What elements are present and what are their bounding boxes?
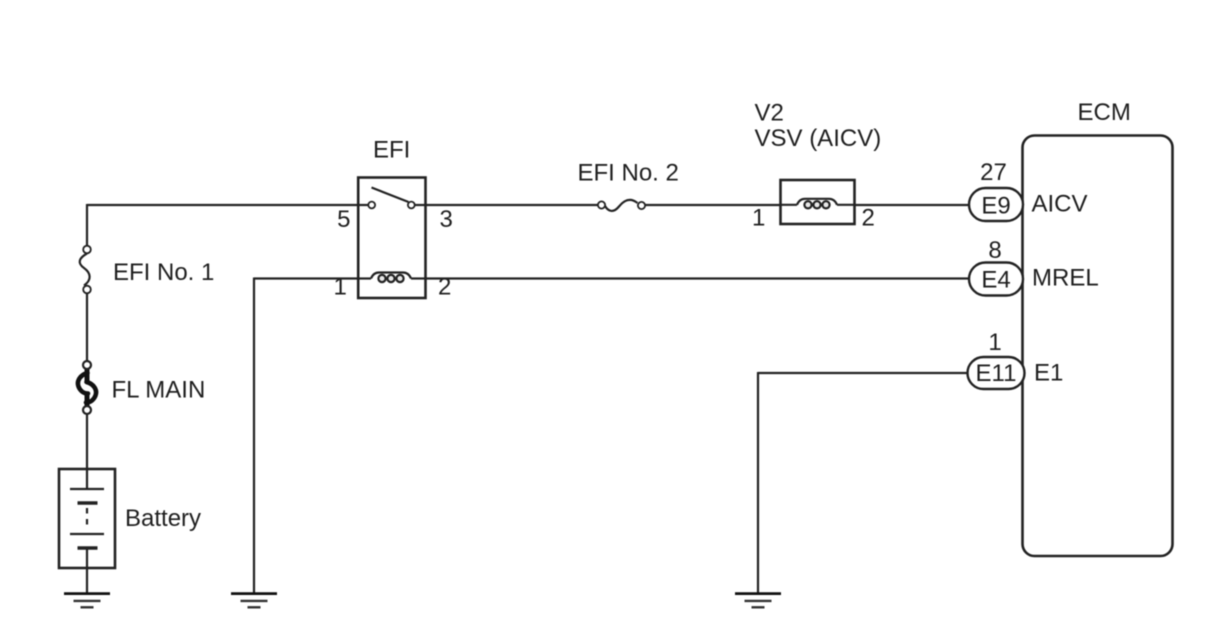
svg-text:ECM: ECM (1078, 99, 1131, 126)
label ECM (1078, 99, 1131, 126)
label FL MAIN (112, 377, 206, 404)
wire battery negative to ground (86, 548, 88, 593)
relay coil (358, 273, 426, 283)
wire fuse EFI No. 2 to VSV pin 1 (645, 204, 780, 206)
ground under battery (64, 594, 110, 608)
svg-text:3: 3 (440, 206, 453, 233)
wire relay pin 2 to ECM connector E4 (426, 277, 969, 279)
relay EFI (358, 178, 425, 299)
ground under relay branch (231, 594, 277, 608)
svg-text:AICV: AICV (1032, 191, 1088, 218)
svg-text:27: 27 (980, 159, 1007, 186)
svg-text:1: 1 (988, 329, 1001, 356)
relay switch contact pin 5 (368, 202, 375, 209)
ECM block (1023, 136, 1173, 557)
connector E4 (969, 263, 1023, 296)
battery (59, 469, 115, 568)
fusible link FL MAIN (78, 361, 96, 414)
svg-text:5: 5 (337, 206, 350, 233)
pin number 1 (E11) (988, 329, 1001, 356)
connector E9 (969, 188, 1023, 221)
svg-text:EFI: EFI (373, 137, 410, 164)
svg-text:MREL: MREL (1032, 265, 1099, 292)
pin number 5 (337, 206, 350, 233)
wire battery feed horizontal to relay pin 5 (87, 204, 358, 206)
svg-text:Battery: Battery (125, 505, 201, 532)
svg-text:2: 2 (862, 205, 875, 232)
relay switch arm (372, 188, 409, 203)
pin number 1 (relay) (334, 274, 347, 301)
svg-text:EFI No. 1: EFI No. 1 (113, 259, 214, 286)
label EFI No. 2 (578, 160, 679, 187)
wire left vertical battery to top (86, 204, 88, 245)
wire relay pin 3 to fuse EFI No. 2 (426, 204, 598, 206)
solenoid valve V2 VSV (AICV) (781, 180, 855, 224)
pin number 1 (VSV) (752, 205, 765, 232)
wire between FL MAIN and battery (86, 414, 88, 489)
label V2 VSV (AICV) (755, 100, 882, 153)
wire E1 horizontal to connector E11 (758, 372, 968, 374)
fuse EFI No. 1 (80, 246, 91, 294)
svg-text:VSV (AICV): VSV (AICV) (755, 125, 882, 152)
svg-text:V2: V2 (755, 100, 784, 127)
label MREL (1032, 265, 1099, 292)
node relay pin1 branch corner (254, 277, 358, 279)
pin number 8 (988, 237, 1001, 264)
label E1 (1034, 360, 1063, 387)
wire between EFI No.1 fuse and FL MAIN (86, 294, 88, 362)
svg-text:1: 1 (752, 205, 765, 232)
relay switch wire stubs (358, 204, 426, 206)
pin number 3 (440, 206, 453, 233)
svg-text:E4: E4 (981, 267, 1010, 294)
fuse EFI No. 2 (598, 200, 645, 211)
svg-text:E9: E9 (981, 192, 1010, 219)
svg-text:E11: E11 (976, 360, 1017, 387)
wire VSV pin 2 to ECM connector E9 (855, 204, 970, 206)
pin number 2 (relay) (438, 274, 451, 301)
pin number 27 (980, 159, 1007, 186)
svg-text:FL MAIN: FL MAIN (112, 377, 206, 404)
label AICV (1032, 191, 1088, 218)
label EFI No. 1 (113, 259, 214, 286)
label EFI (373, 137, 410, 164)
svg-text:8: 8 (988, 237, 1001, 264)
svg-text:E1: E1 (1034, 360, 1063, 387)
wire relay coil branch vertical to ground (253, 278, 255, 593)
relay switch contact pin 3 (408, 202, 415, 209)
pin number 2 (VSV) (862, 205, 875, 232)
ground under E1 wire (735, 594, 781, 608)
svg-text:EFI No. 2: EFI No. 2 (578, 160, 679, 187)
label Battery (125, 505, 201, 532)
connector E11 (968, 357, 1025, 389)
wire E1 vertical to ground (757, 372, 759, 593)
